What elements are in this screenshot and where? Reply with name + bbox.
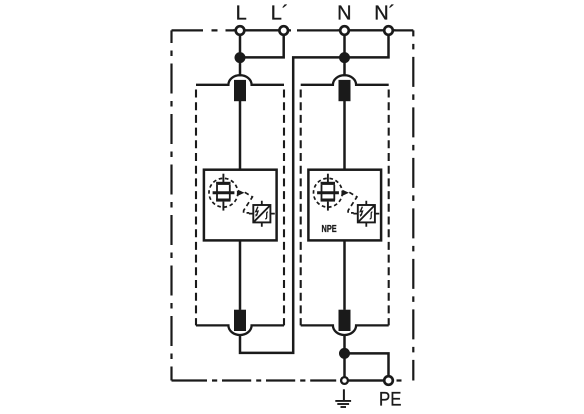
wire L vertical from terminal to upper disconnector	[239, 30, 242, 169]
wire L arrester output down right and up to N junction	[240, 57, 345, 353]
trigger dashed link L	[244, 192, 253, 213]
disconnector N top (filled rectangle)	[339, 80, 351, 101]
protection path L dashed boundary left edge	[195, 85, 197, 326]
protection path L boundary top edge with hop over conductor	[196, 75, 284, 85]
trigger box integral mark L	[265, 212, 268, 219]
terminal PE	[384, 376, 393, 385]
ground symbol	[335, 389, 351, 407]
arrester module box L	[204, 170, 277, 241]
trigger arrow head L	[238, 190, 244, 196]
spark gap with trigger, module L	[209, 174, 275, 227]
trigger box stubs N	[353, 201, 379, 227]
terminal N	[340, 26, 349, 35]
trigger circuit box N	[358, 205, 375, 222]
spark gap side walls L	[217, 185, 230, 201]
spark gap bottom stub L	[222, 202, 224, 211]
spark gap middle electrode line L	[213, 191, 235, 194]
spark gap top electrode N	[321, 182, 335, 185]
trigger dashed link N	[348, 192, 357, 213]
svg-text:N´: N´	[374, 3, 395, 25]
enclosure dash-dot border top	[172, 29, 414, 31]
disconnector L bottom (filled rectangle)	[234, 310, 246, 331]
trigger circuit box L	[253, 205, 270, 222]
terminal ground	[341, 377, 348, 384]
spark gap bottom electrode L	[216, 199, 230, 202]
wire top border solid segment N to N'	[338, 29, 396, 31]
protection path N dashed boundary right edge	[388, 85, 390, 326]
spark gap with trigger, module N	[314, 174, 380, 227]
protection path L dashed boundary right edge	[283, 85, 285, 326]
wire N bottom junction to PE terminal	[345, 353, 389, 380]
spark gap top stub N	[327, 174, 329, 182]
wire bottom border solid segment ground terminal to PE	[343, 379, 390, 381]
terminal L	[236, 26, 245, 35]
enclosure dash-dot border bottom	[172, 379, 402, 381]
protection path N dashed boundary left edge	[300, 85, 302, 326]
junction node N	[339, 52, 350, 63]
protection path N boundary bottom edge with hop over conductor	[301, 325, 389, 335]
spark gap bottom electrode N	[321, 199, 335, 202]
disconnector L top (filled rectangle)	[234, 80, 246, 101]
terminal N'	[384, 26, 393, 35]
svg-text:NPE: NPE	[322, 224, 337, 235]
spark gap dashed circle N	[314, 178, 343, 207]
junction node L	[235, 52, 246, 63]
spark gap top electrode L	[216, 182, 230, 185]
wire N vertical from terminal to upper disconnector	[343, 30, 346, 169]
junction node N bottom	[339, 348, 350, 359]
trigger box diagonal L	[254, 205, 271, 222]
enclosure dash-dot border right	[412, 30, 414, 380]
wire top border solid segment L to L'	[233, 29, 291, 31]
spark gap side walls N	[322, 185, 335, 201]
wire N junction to N' terminal	[345, 30, 389, 57]
trigger box lightning bolt N	[360, 207, 362, 216]
spark gap dashed circle L	[209, 178, 238, 207]
spark gap top stub L	[222, 174, 224, 182]
wire L junction to L' terminal	[240, 30, 284, 57]
trigger box stubs L	[249, 201, 275, 227]
arrester module box N	[308, 170, 381, 241]
spark gap bottom stub N	[327, 202, 329, 211]
svg-text:PE: PE	[379, 389, 401, 411]
svg-text:N: N	[337, 3, 351, 25]
protection path L boundary bottom edge with hop over conductor	[196, 325, 284, 335]
trigger bolt arrowhead L	[255, 214, 258, 217]
trigger bolt arrowhead N	[360, 214, 363, 217]
svg-text:L: L	[236, 3, 247, 25]
wire N arrester output down to ground terminal	[343, 240, 346, 380]
terminal L'	[279, 26, 288, 35]
trigger box integral mark N	[370, 212, 373, 219]
trigger box diagonal N	[358, 205, 375, 222]
enclosure dash-dot border left	[170, 30, 172, 380]
trigger box lightning bolt L	[256, 207, 258, 216]
spark gap middle electrode line N	[317, 191, 339, 194]
trigger arrow head N	[343, 190, 349, 196]
svg-text:L´: L´	[271, 3, 289, 25]
protection path N boundary top edge with hop over conductor	[301, 75, 389, 85]
disconnector N bottom (filled rectangle)	[339, 310, 351, 331]
